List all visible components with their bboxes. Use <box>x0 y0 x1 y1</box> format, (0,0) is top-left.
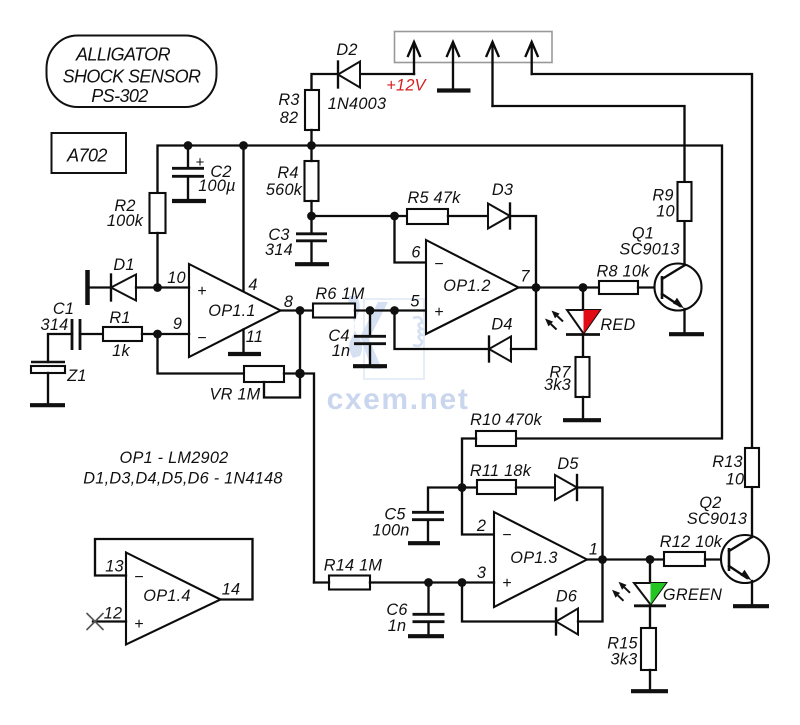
svg-text:82: 82 <box>280 109 299 127</box>
svg-text:Z1: Z1 <box>66 367 87 385</box>
svg-text:OP1.2: OP1.2 <box>443 277 490 295</box>
svg-text:100µ: 100µ <box>198 177 236 195</box>
svg-text:R11 18k: R11 18k <box>470 462 532 480</box>
svg-text:+: + <box>502 575 511 592</box>
svg-text:314: 314 <box>41 316 69 334</box>
svg-text:OP1 - LM2902: OP1 - LM2902 <box>120 449 229 467</box>
svg-text:R8 10k: R8 10k <box>596 263 650 281</box>
svg-text:−: − <box>134 569 143 586</box>
svg-text:10: 10 <box>656 203 675 221</box>
svg-text:cxem.net: cxem.net <box>327 383 470 416</box>
svg-text:5: 5 <box>410 293 420 311</box>
svg-text:+: + <box>134 616 143 633</box>
svg-text:D5: D5 <box>557 455 579 473</box>
svg-text:OP1.1: OP1.1 <box>208 302 255 320</box>
svg-text:SC9013: SC9013 <box>687 510 747 528</box>
svg-text:ALLIGATOR: ALLIGATOR <box>75 45 171 65</box>
svg-text:R14 1M: R14 1M <box>324 557 383 575</box>
svg-text:+12V: +12V <box>386 77 427 95</box>
svg-text:OP1.4: OP1.4 <box>143 587 190 605</box>
svg-text:100n: 100n <box>372 522 409 540</box>
svg-text:R10 470k: R10 470k <box>470 411 542 429</box>
svg-text:D4: D4 <box>491 316 512 334</box>
svg-text:+: + <box>197 283 206 300</box>
svg-text:R3: R3 <box>278 91 299 109</box>
svg-text:14: 14 <box>222 581 241 599</box>
svg-text:−: − <box>502 527 511 544</box>
svg-text:9: 9 <box>173 315 182 333</box>
svg-text:6: 6 <box>411 244 421 262</box>
svg-text:314: 314 <box>265 241 293 259</box>
svg-text:A702: A702 <box>66 146 107 166</box>
svg-text:R4: R4 <box>277 164 298 182</box>
svg-text:100k: 100k <box>107 212 144 230</box>
svg-text:560k: 560k <box>266 181 303 199</box>
svg-text:RED: RED <box>600 316 635 334</box>
svg-text:12: 12 <box>104 605 123 623</box>
svg-text:3: 3 <box>477 564 486 582</box>
svg-text:1n: 1n <box>388 617 407 635</box>
svg-text:11: 11 <box>246 328 263 346</box>
svg-text:−: − <box>197 330 206 347</box>
svg-text:10: 10 <box>726 471 745 489</box>
svg-text:SHOCK SENSOR: SHOCK SENSOR <box>63 67 201 87</box>
svg-text:−: − <box>434 256 443 273</box>
svg-text:PS-302: PS-302 <box>91 86 148 106</box>
svg-text:13: 13 <box>105 558 124 576</box>
svg-text:OP1.3: OP1.3 <box>510 549 557 567</box>
svg-text:R1: R1 <box>109 309 130 327</box>
svg-text:D3: D3 <box>492 181 513 199</box>
svg-text:1N4003: 1N4003 <box>328 95 387 113</box>
svg-text:VR 1M: VR 1M <box>209 386 260 404</box>
svg-text:1k: 1k <box>112 342 130 360</box>
svg-text:D1: D1 <box>113 256 134 274</box>
svg-text:10: 10 <box>167 269 186 287</box>
svg-text:R6 1M: R6 1M <box>315 285 364 303</box>
svg-text:4: 4 <box>248 276 257 294</box>
svg-text:8: 8 <box>284 293 293 311</box>
svg-text:3k3: 3k3 <box>610 651 637 669</box>
svg-text:R12 10k: R12 10k <box>660 533 723 551</box>
svg-text:7: 7 <box>520 268 530 286</box>
svg-text:D2: D2 <box>336 41 357 59</box>
svg-text:1n: 1n <box>332 342 351 360</box>
svg-text:D1,D3,D4,D5,D6 - 1N4148: D1,D3,D4,D5,D6 - 1N4148 <box>83 470 282 488</box>
svg-text:+: + <box>196 154 205 171</box>
svg-text:R5 47k: R5 47k <box>407 189 461 207</box>
svg-text:3k3: 3k3 <box>544 376 571 394</box>
svg-text:GREEN: GREEN <box>663 586 722 604</box>
svg-text:SC9013: SC9013 <box>619 241 679 259</box>
svg-text:1: 1 <box>589 541 598 559</box>
svg-text:D6: D6 <box>556 588 578 606</box>
svg-text:+: + <box>434 304 443 321</box>
svg-text:R13: R13 <box>712 453 743 471</box>
svg-text:2: 2 <box>476 517 486 535</box>
